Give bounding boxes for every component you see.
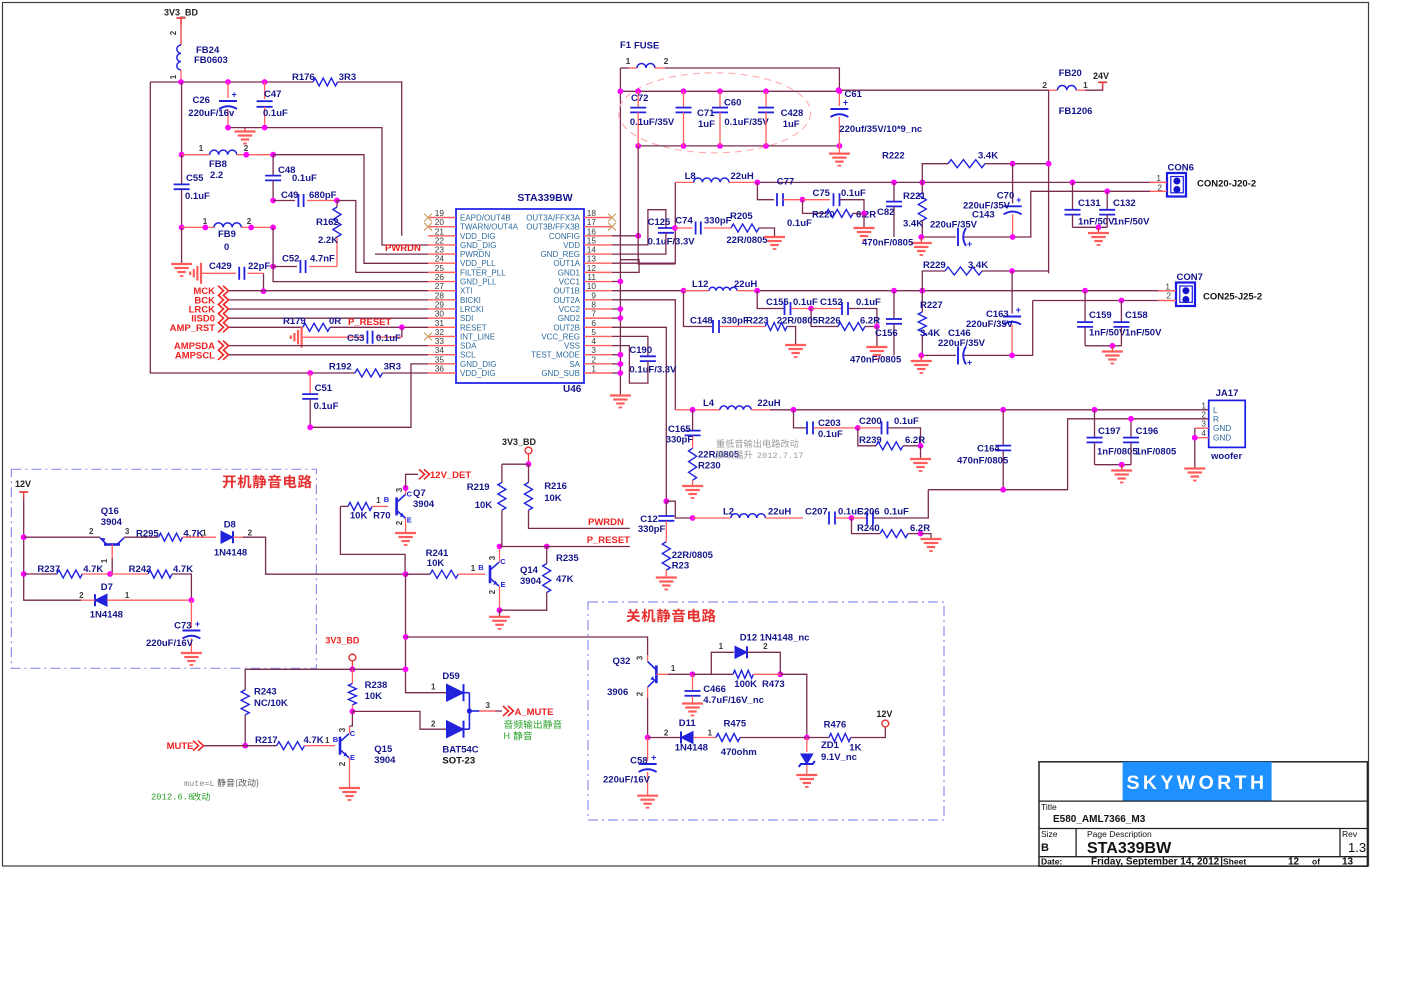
svg-text:C207: C207 xyxy=(805,507,828,518)
wire P_RESET net xyxy=(500,546,630,548)
svg-text:C71: C71 xyxy=(697,108,715,119)
svg-text:+: + xyxy=(1016,195,1021,205)
svg-text:R: R xyxy=(1213,415,1219,424)
svg-text:1nF/0805: 1nF/0805 xyxy=(1097,447,1138,458)
svg-text:3.4K: 3.4K xyxy=(978,151,998,162)
wire OUT1B pin10 to L12 xyxy=(612,290,684,292)
svg-text:Friday, September 14, 2012: Friday, September 14, 2012 xyxy=(1091,857,1220,868)
wire left rail to R192 row xyxy=(150,82,355,373)
svg-text:1uF: 1uF xyxy=(698,119,715,130)
svg-text:220uF/35V: 220uF/35V xyxy=(938,338,986,349)
wire Q16 base to divider xyxy=(111,558,113,574)
svg-text:0.1uF: 0.1uF xyxy=(856,297,881,308)
svg-text:R179: R179 xyxy=(283,316,306,327)
svg-text:C74: C74 xyxy=(675,216,693,227)
svg-text:3.4K: 3.4K xyxy=(903,219,923,230)
svg-text:VDD_DIG: VDD_DIG xyxy=(460,232,496,241)
svg-text:C131: C131 xyxy=(1078,198,1101,209)
capacitor C74 xyxy=(675,227,693,229)
cap bank bottom rail xyxy=(638,145,839,147)
svg-text:3R3: 3R3 xyxy=(384,362,401,373)
diode D12 loop xyxy=(711,652,734,674)
wire VDD_PLL pin24 xyxy=(273,155,428,264)
wire JA17 gnd pins xyxy=(1194,428,1196,468)
pin 8 VCC2 (right) xyxy=(584,308,612,310)
svg-text:1: 1 xyxy=(719,642,724,651)
svg-text:PWRDN: PWRDN xyxy=(385,243,421,254)
svg-text:C206: C206 xyxy=(857,507,880,518)
svg-text:RESET: RESET xyxy=(460,323,487,332)
svg-text:10K: 10K xyxy=(544,493,562,504)
svg-text:13: 13 xyxy=(1342,857,1354,868)
svg-text:2012.6.8: 2012.6.8 xyxy=(151,793,193,803)
title block lines xyxy=(1039,800,1367,802)
svg-text:LRCKI: LRCKI xyxy=(460,305,484,314)
wire C429 to XTI xyxy=(263,273,265,291)
svg-text:0.1uF: 0.1uF xyxy=(793,297,818,308)
pin 1 GND_SUB (right) xyxy=(584,372,612,374)
power flag 12V left xyxy=(19,491,28,493)
capacitor C155 xyxy=(757,291,784,309)
pin 24 VDD_PLL (left) xyxy=(428,262,456,264)
svg-text:Q32: Q32 xyxy=(613,656,631,667)
svg-text:R222: R222 xyxy=(882,151,905,162)
svg-text:220uf/35V/10*9_nc: 220uf/35V/10*9_nc xyxy=(839,124,922,135)
wire VCC_REG pin5 to C190 xyxy=(612,336,648,356)
svg-text:C72: C72 xyxy=(631,93,648,104)
ferrite bead FB24 xyxy=(177,45,181,70)
resistor R162 xyxy=(336,201,338,208)
svg-text:R217: R217 xyxy=(255,735,278,746)
svg-text:470ohm: 470ohm xyxy=(721,747,757,758)
capacitor C143 electrolytic xyxy=(957,228,959,246)
svg-text:E: E xyxy=(500,580,505,589)
svg-text:VCC_REG: VCC_REG xyxy=(541,332,580,341)
svg-text:1nF/50V: 1nF/50V xyxy=(1089,328,1126,339)
channel A bottom row xyxy=(921,236,956,238)
title power-on mute xyxy=(223,476,236,489)
wire FB24 to rail xyxy=(180,70,182,82)
wire GND1 pin12 jog to VCC vertical xyxy=(612,260,639,273)
svg-text:C49: C49 xyxy=(281,190,298,201)
svg-text:R162: R162 xyxy=(316,217,339,228)
SKYWORTH logo band xyxy=(1123,762,1272,801)
svg-text:GND_REG: GND_REG xyxy=(540,250,580,259)
svg-text:AMPSCL: AMPSCL xyxy=(175,351,215,362)
svg-text:B: B xyxy=(1041,842,1049,854)
svg-text:C26: C26 xyxy=(193,95,210,106)
svg-text:R238: R238 xyxy=(365,680,388,691)
power flag 3V3_BD xyxy=(177,17,186,19)
pin 6 OUT2B (right) xyxy=(584,326,612,328)
svg-text:1N4148: 1N4148 xyxy=(675,743,708,754)
capacitor C125 xyxy=(658,227,674,229)
svg-text:Q7: Q7 xyxy=(413,488,426,499)
pin 2 SA (right) xyxy=(584,363,612,365)
ground after R205 xyxy=(759,228,775,237)
wire C51 bottom to GND_DIG pin35 xyxy=(310,364,428,427)
svg-text:0: 0 xyxy=(224,242,229,253)
svg-text:C73: C73 xyxy=(174,621,191,632)
pin 30 SDI (left) xyxy=(428,317,456,319)
svg-text:Q16: Q16 xyxy=(101,506,119,517)
wire PWRDN net xyxy=(529,510,630,528)
zener ZD1 xyxy=(806,738,808,753)
svg-text:4.7uF/16V_nc: 4.7uF/16V_nc xyxy=(703,695,764,706)
resistor R216 xyxy=(525,482,533,510)
capacitor C146 electrolytic xyxy=(957,346,959,364)
capacitor C47 xyxy=(264,82,266,99)
svg-text:B: B xyxy=(333,735,339,744)
svg-text:2: 2 xyxy=(169,30,178,35)
svg-text:0.1uF: 0.1uF xyxy=(185,191,210,202)
svg-text:330pF: 330pF xyxy=(666,435,694,446)
svg-text:0.1uF: 0.1uF xyxy=(841,188,866,199)
svg-text:R476: R476 xyxy=(824,720,847,731)
svg-text:CON25-J25-2: CON25-J25-2 xyxy=(1203,292,1262,303)
svg-text:Page Description: Page Description xyxy=(1087,829,1152,839)
pin 36 VDD_DIG (left) xyxy=(428,372,456,374)
rotated ground for C429 xyxy=(200,263,202,284)
ferrite bead FB8 xyxy=(179,152,185,158)
node GND_SUB pin1 xyxy=(612,372,620,374)
capacitor C156 xyxy=(893,291,895,319)
no-connect crosses xyxy=(424,214,432,222)
svg-text:C47: C47 xyxy=(264,89,281,100)
svg-text:9.1V_nc: 9.1V_nc xyxy=(821,752,857,763)
svg-text:INT_LINE: INT_LINE xyxy=(460,332,495,341)
wire R473 to ZD1 node xyxy=(780,674,807,737)
svg-text:3: 3 xyxy=(338,727,347,732)
svg-text:1uF: 1uF xyxy=(783,119,800,130)
svg-text:0.1uF: 0.1uF xyxy=(818,429,843,440)
ground under R23 xyxy=(656,576,677,578)
svg-text:C429: C429 xyxy=(209,261,232,272)
svg-text:2: 2 xyxy=(635,691,644,696)
svg-text:1N4148: 1N4148 xyxy=(214,548,247,559)
svg-text:E: E xyxy=(407,516,412,525)
svg-text:1nF/0805: 1nF/0805 xyxy=(1136,447,1177,458)
capacitor C72 xyxy=(637,91,639,107)
JA17 pin3 pin4 stubs xyxy=(1195,427,1209,429)
svg-text:R70: R70 xyxy=(373,511,390,522)
dashed box power-off mute xyxy=(588,602,944,820)
svg-text:1: 1 xyxy=(626,56,631,66)
capacitor C131 xyxy=(1072,182,1074,209)
svg-text:330pF: 330pF xyxy=(721,316,749,327)
capacitor C163 electrolytic xyxy=(1011,271,1013,314)
svg-text:10K: 10K xyxy=(365,691,383,702)
svg-text:R295: R295 xyxy=(136,529,159,540)
capacitor C55 xyxy=(181,155,183,185)
wire Q14 emitter to ground xyxy=(499,586,501,610)
svg-text:1: 1 xyxy=(376,496,381,505)
resistor R229 xyxy=(922,271,945,291)
capacitor C159 xyxy=(1084,291,1086,322)
capacitor C428 xyxy=(765,91,767,107)
pin 35 GND_DIG (left) xyxy=(428,363,456,365)
channel A output bus xyxy=(757,181,1167,183)
wire Q15 emitter to ground xyxy=(349,758,351,788)
svg-text:0.1uF/35V: 0.1uF/35V xyxy=(724,117,769,128)
svg-text:A_MUTE: A_MUTE xyxy=(515,707,554,718)
svg-text:GND_DIG: GND_DIG xyxy=(460,360,496,369)
svg-text:R243: R243 xyxy=(254,687,277,698)
svg-text:22uH: 22uH xyxy=(731,171,754,182)
svg-text:R473: R473 xyxy=(762,679,785,690)
pin 4 VSS (right) xyxy=(584,345,612,347)
ground under C73 xyxy=(181,652,202,654)
svg-text:EAPD/OUT4B: EAPD/OUT4B xyxy=(460,214,511,223)
svg-text:ZD1: ZD1 xyxy=(821,740,840,751)
svg-text:4.7nF: 4.7nF xyxy=(310,254,335,265)
wire 3V3_BD to FB24 xyxy=(180,18,182,45)
svg-text:XTI: XTI xyxy=(460,287,472,296)
ground under C196/C197 xyxy=(1121,465,1123,471)
ground after R240 xyxy=(921,534,932,539)
ground under C55/FB9 column xyxy=(181,227,183,264)
capacitor C132 xyxy=(1106,191,1108,209)
svg-text:0.1uF: 0.1uF xyxy=(787,218,812,229)
svg-text:47K: 47K xyxy=(556,574,574,585)
svg-text:GND: GND xyxy=(1213,434,1231,443)
svg-text:12V_DET: 12V_DET xyxy=(430,470,471,481)
svg-text:0.1uF/3.3V: 0.1uF/3.3V xyxy=(648,237,696,248)
pin 34 SCL (left) xyxy=(428,354,456,356)
svg-text:VDD_DIG: VDD_DIG xyxy=(460,369,496,378)
svg-text:MUTE: MUTE xyxy=(167,741,194,752)
svg-text:C132: C132 xyxy=(1113,198,1136,209)
svg-text:C159: C159 xyxy=(1089,310,1112,321)
wire GND_REG pin14 to C125 bottom xyxy=(612,233,666,254)
svg-text:3: 3 xyxy=(635,655,644,660)
channel B bottom row xyxy=(921,354,956,356)
svg-text:0.1uF: 0.1uF xyxy=(894,416,919,427)
svg-text:SDI: SDI xyxy=(460,314,473,323)
svg-text:3.4K: 3.4K xyxy=(968,260,988,271)
svg-text:woofer: woofer xyxy=(1210,451,1242,462)
svg-text:R205: R205 xyxy=(730,211,753,222)
ground under JA17 xyxy=(1184,467,1205,469)
pin 27 XTI (left) xyxy=(428,290,456,292)
wire fuse-left vertical VCC xyxy=(619,68,621,396)
svg-text:3904: 3904 xyxy=(413,499,435,510)
pin 14 GND_REG (right) xyxy=(584,253,612,255)
svg-text:1: 1 xyxy=(125,591,130,600)
svg-text:3906: 3906 xyxy=(607,687,628,698)
transistor Q15 3904 xyxy=(339,737,342,755)
svg-text:220uF/16V: 220uF/16V xyxy=(146,638,194,649)
pin 15 VDD (right) xyxy=(584,244,612,246)
green notes xyxy=(504,720,513,729)
svg-text:R226: R226 xyxy=(818,316,841,327)
pin 10 OUT1B (right) xyxy=(584,290,612,292)
svg-text:+: + xyxy=(967,357,972,367)
capacitor C52 row xyxy=(270,264,276,270)
svg-text:0.1uF: 0.1uF xyxy=(263,108,288,119)
ground after R226 xyxy=(876,327,878,348)
channel C output bus to JA17 xyxy=(770,409,1209,411)
svg-text:VDD_PLL: VDD_PLL xyxy=(460,259,496,268)
svg-text:22uH: 22uH xyxy=(768,507,791,518)
svg-text:3V3_BD: 3V3_BD xyxy=(502,437,537,447)
svg-text:C203: C203 xyxy=(818,418,841,429)
wire base node to R473 xyxy=(693,673,734,675)
svg-text:F1: F1 xyxy=(620,40,632,51)
svg-text:C53: C53 xyxy=(347,333,364,344)
svg-text:1nF/50V: 1nF/50V xyxy=(1113,217,1150,228)
svg-text:OUT1B: OUT1B xyxy=(553,287,580,296)
svg-text:4: 4 xyxy=(1201,428,1206,438)
capacitor C82 xyxy=(893,182,895,201)
svg-text:C52: C52 xyxy=(282,254,299,265)
svg-text:TWARN/OUT4A: TWARN/OUT4A xyxy=(460,223,519,232)
svg-text:4.7K: 4.7K xyxy=(304,735,324,746)
capacitor C51 xyxy=(309,373,311,394)
svg-text:3904: 3904 xyxy=(374,755,396,766)
resistor R220 xyxy=(803,200,827,214)
capacitor C12 branch xyxy=(663,498,669,504)
capacitor C53 xyxy=(302,336,364,338)
svg-text:22R/0805: 22R/0805 xyxy=(777,316,819,327)
wire C61 rail to FB20 xyxy=(839,89,1049,91)
svg-text:CONFIG: CONFIG xyxy=(549,232,580,241)
ground under R230 xyxy=(682,485,703,487)
svg-text:+: + xyxy=(232,90,237,100)
wire FB20 column down xyxy=(1048,90,1050,164)
node SA pin2 xyxy=(612,363,620,365)
svg-text:C: C xyxy=(500,557,506,566)
svg-text:100K: 100K xyxy=(734,679,757,690)
wire gnd row under C26 C47 xyxy=(228,128,428,245)
svg-text:2012.7.17: 2012.7.17 xyxy=(757,451,803,461)
svg-text:SA: SA xyxy=(569,360,580,369)
connector CON7 xyxy=(1176,283,1195,307)
svg-text:OUT2A: OUT2A xyxy=(553,296,580,305)
channel B output bus xyxy=(757,290,1176,292)
svg-text:R176: R176 xyxy=(292,72,315,83)
cap bank top rail xyxy=(620,90,839,92)
resistor R473 xyxy=(733,670,753,678)
pin 28 BICKI (left) xyxy=(428,299,456,301)
svg-text:10K: 10K xyxy=(350,511,368,522)
svg-text:0.1uF: 0.1uF xyxy=(376,333,401,344)
svg-text:2: 2 xyxy=(488,589,497,594)
svg-text:1: 1 xyxy=(169,74,178,79)
svg-text:R23: R23 xyxy=(672,561,689,572)
svg-text:0.1uF: 0.1uF xyxy=(292,173,317,184)
svg-text:1: 1 xyxy=(708,729,713,738)
connector CON6 xyxy=(1167,173,1186,197)
svg-text:12V: 12V xyxy=(15,479,31,489)
pin 29 LRCKI (left) xyxy=(428,308,456,310)
wire 3V3 rail xyxy=(150,81,313,83)
svg-text:OUT1A: OUT1A xyxy=(553,259,580,268)
ground under C26/C47 xyxy=(244,128,246,132)
svg-text:0R: 0R xyxy=(329,316,341,327)
svg-text:C164: C164 xyxy=(977,444,1000,455)
svg-text:10K: 10K xyxy=(475,500,493,511)
svg-text:0.1uF/35V: 0.1uF/35V xyxy=(630,117,675,128)
svg-text:220uF/35V: 220uF/35V xyxy=(966,319,1014,330)
svg-text:D59: D59 xyxy=(442,671,459,682)
svg-text:1: 1 xyxy=(431,683,436,692)
svg-text:C148: C148 xyxy=(690,316,713,327)
ground under IC right xyxy=(610,394,631,396)
svg-text:BICKI: BICKI xyxy=(460,296,481,305)
svg-text:PWRDN: PWRDN xyxy=(460,250,490,259)
capacitor C148 branch xyxy=(684,291,713,327)
svg-text:R192: R192 xyxy=(329,362,352,373)
svg-text:R227: R227 xyxy=(920,300,943,311)
svg-text:36: 36 xyxy=(435,363,445,373)
dashed box power-on mute xyxy=(11,469,316,668)
svg-text:L4: L4 xyxy=(703,398,715,409)
wire 12V rail xyxy=(24,499,82,600)
svg-text:VSS: VSS xyxy=(564,342,580,351)
pin 26 GND_PLL (left) xyxy=(428,281,456,283)
svg-text:CON6: CON6 xyxy=(1168,163,1194,174)
svg-text:2.2: 2.2 xyxy=(210,170,223,181)
svg-text:PWRDN: PWRDN xyxy=(588,517,624,528)
svg-text:D7: D7 xyxy=(101,582,113,593)
capacitor C206 xyxy=(852,517,867,519)
ground after R239 xyxy=(920,446,922,459)
svg-text:VCC1: VCC1 xyxy=(559,278,581,287)
svg-text:VCC2: VCC2 xyxy=(559,305,581,314)
svg-text:GND2: GND2 xyxy=(558,314,581,323)
svg-text:C125: C125 xyxy=(648,217,671,228)
node TEST_MODE pin3 xyxy=(612,354,620,356)
wire 3V3 row to R243 xyxy=(245,668,405,670)
pin 33 SDA (left) xyxy=(428,345,456,347)
wire CON6 pin2 row xyxy=(1107,190,1150,192)
svg-text:OUT2B: OUT2B xyxy=(553,323,580,332)
svg-text:FB0603: FB0603 xyxy=(194,55,228,66)
svg-text:C428: C428 xyxy=(781,108,804,119)
svg-text:P_RESET: P_RESET xyxy=(587,535,630,546)
svg-text:2: 2 xyxy=(248,529,253,538)
svg-text:1nF/50V: 1nF/50V xyxy=(1125,328,1162,339)
svg-text:H: H xyxy=(504,731,511,741)
capacitor C196 xyxy=(1130,419,1132,438)
resistor R70 xyxy=(340,505,348,507)
svg-text:1: 1 xyxy=(100,558,109,563)
svg-text:1.3: 1.3 xyxy=(1348,840,1366,855)
note text gray xyxy=(716,439,724,447)
svg-text:470nF/0805: 470nF/0805 xyxy=(862,238,914,249)
svg-text:R240: R240 xyxy=(857,523,880,534)
ground under R227 xyxy=(920,355,922,361)
capacitor C165 xyxy=(692,410,694,431)
inductor L12 xyxy=(681,288,687,294)
svg-text:470nF/0805: 470nF/0805 xyxy=(957,456,1009,467)
svg-text:R229: R229 xyxy=(923,260,946,271)
svg-text:0.1uF: 0.1uF xyxy=(314,401,339,412)
svg-text:2: 2 xyxy=(1166,291,1171,301)
svg-text:SCL: SCL xyxy=(460,351,476,360)
svg-text:VDD: VDD xyxy=(563,241,580,250)
svg-text:R216: R216 xyxy=(544,481,567,492)
wire CONFIG pin16 to VCC vertical xyxy=(612,235,638,237)
resistor R239 xyxy=(858,428,876,446)
capacitor C190 xyxy=(640,355,656,357)
resistor R227 xyxy=(921,291,923,312)
resistor R23 xyxy=(662,542,670,570)
svg-text:C466: C466 xyxy=(703,684,726,695)
svg-text:22pF: 22pF xyxy=(248,261,270,272)
ground under C466 xyxy=(682,702,703,704)
